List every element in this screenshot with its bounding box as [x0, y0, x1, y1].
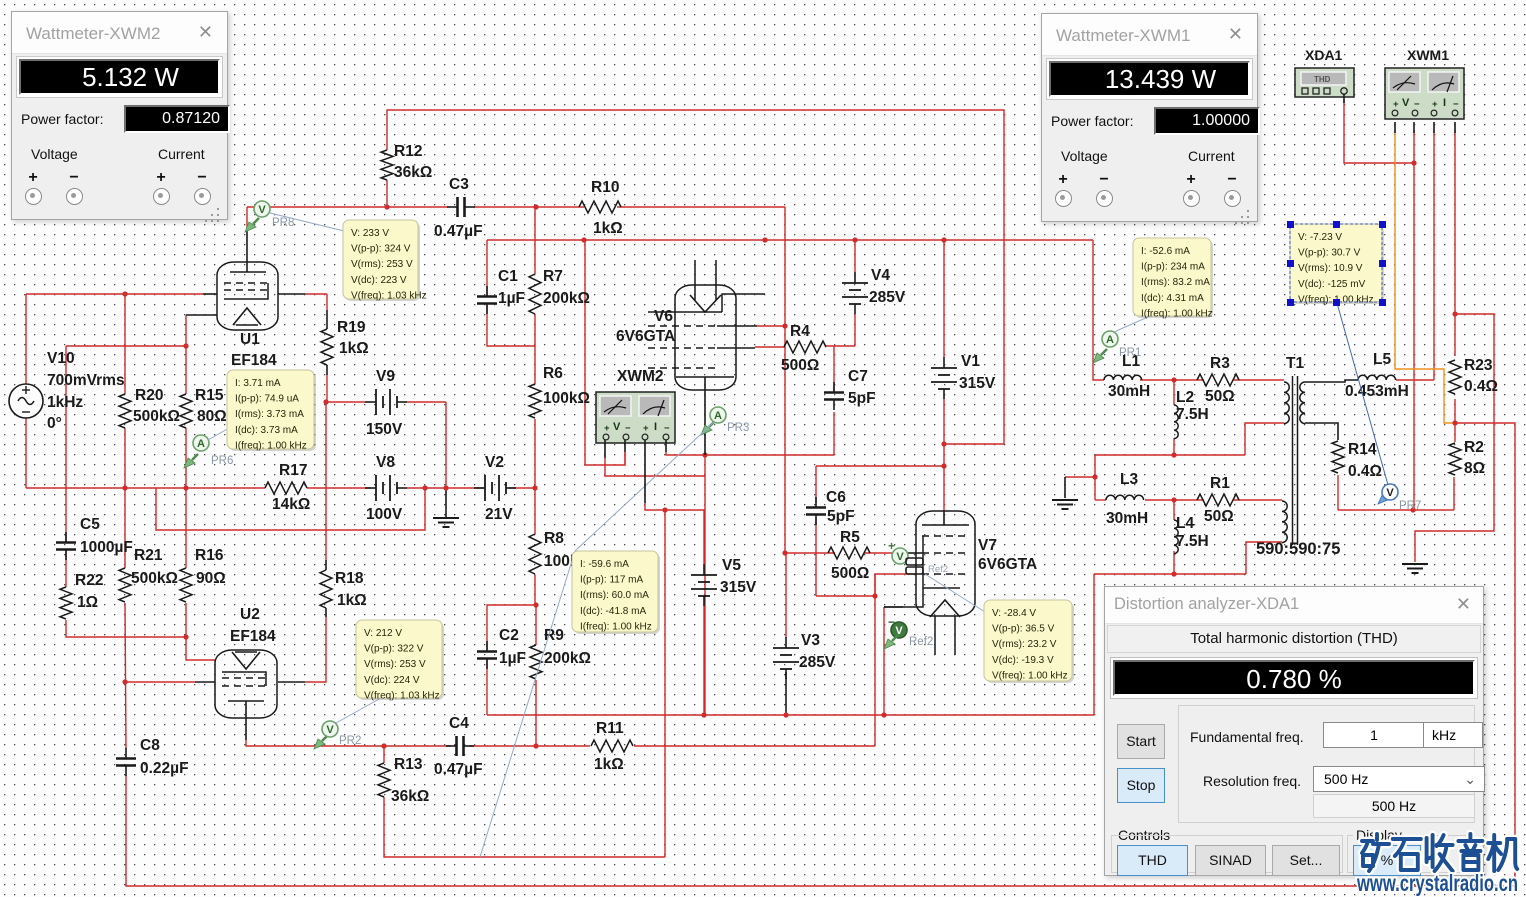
- junction: [881, 712, 886, 717]
- wire top rail y=110: [387, 110, 1004, 444]
- tube U2 EF184 envelope: [215, 650, 277, 718]
- wire x=326 down to R18: [325, 402, 327, 560]
- wire C1 bottom to junction: [487, 305, 535, 346]
- inductor L4 7.5H: [1174, 520, 1178, 554]
- wire R18 to U2 right pin: [305, 617, 326, 682]
- leader PR8: [270, 213, 344, 231]
- wire C3 to R10: [474, 206, 584, 208]
- dialog Wattmeter-XWM1: [1041, 13, 1258, 222]
- junction: [532, 485, 537, 490]
- wire V4 bottom stem: [854, 314, 856, 346]
- junction: [941, 463, 946, 468]
- capacitor C2 1uF: [477, 650, 497, 653]
- wire y=346 branch: [66, 345, 186, 347]
- capacitor C4 0.47uF: [455, 736, 458, 756]
- junction: [443, 485, 448, 490]
- wire T1 secondary bottom to R14: [1305, 423, 1338, 440]
- watermark glyph ji: [1488, 835, 1517, 871]
- wire V3 bottom black: [785, 672, 787, 715]
- wire R13 bottom rail y=857: [384, 797, 665, 857]
- wire R19 top stub black: [326, 310, 328, 329]
- wire C7 bottom stem: [833, 412, 835, 455]
- wire R2 bottom: [1453, 477, 1455, 510]
- probe readout box Ref2: [984, 600, 1074, 683]
- wire V4 top: [854, 240, 856, 272]
- resistor R12 36k: [381, 150, 393, 180]
- junction: [782, 550, 787, 555]
- wire y=466 V7 top link: [816, 465, 944, 467]
- wire XWM2 pin1 net: [605, 458, 705, 476]
- watermark glyph shou: [1427, 835, 1453, 871]
- junction: [762, 237, 767, 242]
- wire to R3: [1174, 379, 1204, 381]
- wire V9 right down: [445, 402, 447, 488]
- wire C5 top stem: [65, 346, 67, 542]
- wire R20 bottom: [124, 428, 126, 488]
- probe Ref2: [884, 615, 933, 649]
- wire bottom rail y=886: [126, 775, 1515, 886]
- wire L3 left: [1095, 499, 1106, 501]
- junction: [941, 441, 946, 446]
- probe readout box PR7 selected: [1290, 224, 1384, 305]
- battery V5 315V: [691, 574, 717, 576]
- wire R13 top: [383, 746, 385, 763]
- wire R6 bottom to V2 node: [534, 419, 536, 488]
- battery V3 285V: [773, 647, 799, 649]
- wire C6 bottom stem: [815, 518, 817, 596]
- wire L4 top stub: [1173, 500, 1175, 520]
- wire V6 cathode net x=705: [704, 455, 706, 715]
- junction: [533, 204, 538, 209]
- junction: [1452, 420, 1457, 425]
- wire R19 bottom to V9: [326, 375, 328, 402]
- tube U1 grids: [224, 282, 268, 284]
- transformer T1 secondary winding: [1300, 382, 1305, 424]
- wire R7 top: [534, 207, 536, 274]
- wire R15 top: [185, 346, 187, 394]
- wire R18 bottom stub: [325, 608, 327, 617]
- XWM2 pin stubs: [604, 440, 606, 458]
- wire C2 top branch: [487, 605, 536, 651]
- resistor R23 0.4: [1449, 360, 1461, 394]
- wire XWM1 pin3 down: [1433, 130, 1435, 380]
- tube V7 grids: [922, 535, 969, 537]
- ground near V2: [433, 517, 459, 519]
- wire C4 to R11: [469, 745, 590, 747]
- wire T1 primary bottom: [1245, 423, 1284, 455]
- tube U1 EF184 envelope: [217, 262, 278, 330]
- wire L4 bottom stub: [1173, 551, 1175, 574]
- junction: [1171, 571, 1176, 576]
- junction: [662, 507, 667, 512]
- wire C7 top stem: [833, 346, 835, 392]
- resistor R8 100k: [529, 534, 541, 574]
- junction: [1171, 377, 1176, 382]
- wire rail y=488 left: [26, 487, 265, 489]
- wire to U2 upper pin: [186, 637, 215, 660]
- resistor R6 100k: [529, 384, 541, 418]
- wire V10 top stem: [25, 294, 27, 384]
- wire L3 to R1: [1145, 499, 1204, 501]
- wire V5 top: [703, 510, 705, 564]
- wire rail y=746 left: [246, 740, 451, 746]
- wire L1 right: [1140, 379, 1174, 381]
- svg-text:www.crystalradio.cn: www.crystalradio.cn: [1356, 870, 1518, 896]
- resistor R14 0.4: [1332, 441, 1344, 473]
- probe PR2: [314, 721, 361, 749]
- wire R18 top stub: [325, 560, 327, 570]
- junction arrow: [1092, 474, 1097, 479]
- wire rail y=240: [487, 239, 1093, 241]
- probe PR5 plus: [888, 539, 908, 564]
- inductor L3 30mH: [1106, 495, 1144, 500]
- junction arrow: [122, 679, 127, 684]
- wire R8 top: [534, 488, 536, 534]
- tube V7 internal frame: [923, 536, 960, 588]
- wire x=665 up to XWM2 pin3 net: [664, 510, 666, 857]
- wire R21 bottom to C8: [125, 603, 126, 749]
- wire XWM2 pin2 to rail y=240: [585, 240, 625, 465]
- probe PR3: [701, 407, 749, 435]
- resistor R21 500k: [119, 568, 131, 602]
- wire R16 bottom: [185, 603, 187, 637]
- wire V9 right lead: [407, 401, 446, 403]
- wire U1 cathode pin black: [186, 314, 217, 316]
- probe PR7: [1378, 484, 1421, 512]
- capacitor C1 1uF: [477, 295, 497, 298]
- resistor R3 50: [1197, 374, 1239, 386]
- junction arrow: [1410, 507, 1415, 512]
- resistor R20 500k: [119, 394, 131, 428]
- probe PR6: [184, 435, 233, 468]
- capacitor C8 0.22uF: [116, 757, 136, 760]
- resistor R1 50: [1197, 494, 1239, 506]
- wire ground stem left: [1064, 477, 1066, 498]
- tube V6 6V6GTA envelope: [675, 285, 736, 390]
- wire R10 to x=785 drop: [617, 206, 785, 208]
- wire XWM1 pin2 down: [1413, 130, 1415, 510]
- XDA1 pin stub: [1343, 94, 1345, 103]
- tube V7 plate bar: [922, 524, 969, 526]
- wire XWM1 pin4 down to R23: [1454, 130, 1456, 356]
- resistor R5 500: [828, 547, 870, 559]
- junction: [702, 452, 707, 457]
- battery V4 285V: [842, 282, 868, 284]
- wire probe to V7 screen black: [908, 552, 922, 554]
- wire U2 right pin black: [278, 681, 305, 683]
- leader PR2: [336, 698, 381, 723]
- battery V1 315V: [931, 367, 957, 369]
- wire to R5 left: [785, 552, 835, 554]
- resistor R13 36k: [378, 763, 390, 797]
- wire ground tap y=477: [1065, 476, 1095, 478]
- junction: [381, 743, 386, 748]
- wire R12 bottom stub: [386, 180, 388, 207]
- tube V7 heater chevron: [930, 600, 960, 617]
- wire R2 node to right rail x=1515: [1455, 423, 1515, 886]
- leader PR1: [1114, 316, 1150, 332]
- tube U1 heater chevron: [233, 308, 261, 325]
- junction: [122, 291, 127, 296]
- wire rail y=715: [487, 714, 1094, 716]
- tube U2 heater chevron: [232, 652, 260, 669]
- wire C6 bottom tee: [816, 595, 875, 597]
- wire R9 top: [535, 605, 537, 645]
- resistor R19 1k: [321, 329, 333, 365]
- wire R5 right to probe: [864, 552, 893, 554]
- watermark glyph shi: [1393, 839, 1421, 870]
- capacitor C3 0.47uF: [456, 197, 459, 217]
- watermark glyph ji: [1488, 835, 1517, 871]
- junction: [941, 237, 946, 242]
- leader PR6: [208, 428, 229, 440]
- probe readout box PR1: [1133, 238, 1213, 319]
- junction: [323, 399, 328, 404]
- wire C5 to R22: [65, 550, 67, 587]
- wire R19 bottom stub black: [326, 365, 328, 375]
- wire V7 cathode bar black: [884, 606, 903, 608]
- junction: [701, 712, 706, 717]
- junction: [1452, 311, 1457, 316]
- wire U1 plate rail left: [247, 206, 448, 208]
- junction: [183, 634, 188, 639]
- wire R23 top loop to ground: [1415, 314, 1494, 562]
- wire V7 cathode down: [883, 607, 885, 715]
- instrument icon XWM2: [596, 392, 675, 443]
- probe PR1: [1093, 331, 1141, 363]
- junction: [783, 712, 788, 717]
- resistor R7 200k: [529, 274, 541, 314]
- source V10 700mVrms: [9, 384, 43, 418]
- wire XWM2 pin4 to R4/C7: [666, 452, 834, 455]
- wire C6 top stem: [815, 466, 817, 503]
- wire V5 bottom: [703, 606, 705, 715]
- resistor R2 8: [1449, 443, 1461, 475]
- junction: [1411, 160, 1416, 165]
- wire rail y=455: [1095, 454, 1245, 456]
- wire XWM2 pin3 net: [645, 503, 705, 510]
- wire V10 top rail y=294: [26, 293, 203, 295]
- wire into V7 plate: [943, 466, 945, 512]
- probe readout box PR8: [343, 220, 427, 301]
- junction: [581, 237, 586, 242]
- probe readout box PR2: [356, 620, 444, 701]
- wire U1 plate up: [246, 207, 248, 230]
- wire U2 grid pin black: [195, 681, 215, 683]
- probe readout box PR6: [227, 370, 316, 451]
- junction arrow: [872, 593, 877, 598]
- resistor R15 80: [180, 394, 192, 428]
- battery V9 150V: [375, 389, 377, 415]
- wire x=1094 up to T1 return: [1093, 574, 1095, 715]
- leader PR3: [575, 422, 714, 551]
- wire U1 cathode to junction: [185, 315, 187, 346]
- ground below R2 loop: [1402, 563, 1428, 565]
- wire R1 to T1 lower winding: [1233, 499, 1282, 501]
- dialog Wattmeter-XWM2: [11, 11, 228, 220]
- capacitor C5 1000uF: [56, 541, 76, 544]
- junction: [122, 485, 127, 490]
- battery V8 100V: [375, 475, 377, 501]
- XWM1 pin stubs: [1394, 122, 1396, 133]
- ground right of L3: [1052, 499, 1078, 501]
- probe readout box PR3: [572, 551, 660, 634]
- wire L5 right: [1396, 379, 1434, 381]
- leader Ref2: [925, 574, 985, 612]
- tube V6 heater pins: [694, 260, 696, 300]
- tube U1 plate bar: [230, 271, 266, 273]
- wire R16 top: [185, 488, 187, 568]
- junction: [384, 204, 389, 209]
- wire down to L1: [1093, 240, 1104, 380]
- dialog Distortion analyzer-XDA1: [1104, 586, 1484, 876]
- wire V8 right lead: [407, 487, 425, 489]
- watermark glyph yin: [1458, 834, 1482, 870]
- wire R8 bottom: [534, 575, 536, 605]
- inductor L5 0.453mH: [1358, 375, 1396, 380]
- wire rail y=574: [1094, 573, 1246, 575]
- battery V2 21V: [484, 475, 486, 501]
- resistor R10 1k: [579, 201, 621, 213]
- wire R11 to x=875: [634, 745, 875, 747]
- wire R14 bottom: [1337, 475, 1339, 510]
- tube V6 cathode: [676, 376, 734, 378]
- wire grid tee upper: [874, 574, 876, 596]
- wire T1 lower winding bottom: [1246, 542, 1282, 574]
- wire R4 right to V4: [826, 345, 855, 347]
- wire node to V2: [425, 487, 484, 489]
- resistor R11 1k: [591, 740, 633, 752]
- wire ground loop y=530: [156, 488, 425, 530]
- wire V10 bottom stem: [25, 418, 27, 488]
- watermark glyph yin: [1458, 834, 1482, 870]
- wire R15 bottom: [185, 428, 187, 488]
- tube V6 grids: [648, 325, 717, 327]
- tube V6 plate: [648, 294, 765, 312]
- wire x=1095 down to L3: [1094, 455, 1096, 500]
- tube U2 grids: [222, 677, 266, 679]
- wire C1 top: [486, 240, 488, 296]
- wire U1 right pin to R19: [305, 293, 327, 295]
- junction: [782, 323, 787, 328]
- wire orange XWM1 pin1: [1395, 130, 1455, 423]
- capacitor C6 5pF: [806, 506, 826, 509]
- wire U1 plate pin black: [246, 230, 248, 272]
- junction: [1171, 452, 1176, 457]
- wire V1 to x=1004: [944, 443, 1004, 445]
- wire V2 right: [509, 487, 535, 489]
- wire R23 bottom to R2 top: [1454, 399, 1456, 442]
- wire V9 left: [326, 401, 365, 403]
- wire C2 bottom: [486, 659, 488, 715]
- wire XWM2 pin2 stub red: [624, 452, 626, 465]
- transformer T1 primary winding: [1284, 382, 1289, 424]
- wire V1 bottom: [943, 399, 945, 466]
- wire rail y=510: [1338, 509, 1454, 511]
- wire R17 to V8: [307, 487, 371, 489]
- resistor R9 200k: [530, 645, 542, 679]
- wire T1 secondary to L5: [1305, 380, 1358, 382]
- junction: [1171, 497, 1176, 502]
- wire x=785 vertical U1 plate to R5: [784, 207, 786, 553]
- tube U2 plate bar: [228, 700, 264, 702]
- wire R21 top: [124, 488, 126, 568]
- watermark glyph shou: [1427, 835, 1453, 871]
- tube V6 heater chevron: [690, 295, 721, 312]
- wire U2 cathode black: [245, 718, 247, 740]
- wire x=875 up to V7 grid: [875, 574, 916, 746]
- inductor L1 30mH: [1104, 375, 1142, 380]
- wire ground stem: [445, 488, 447, 517]
- resistor R22 1: [60, 587, 72, 619]
- wire V6 screen to x=785: [757, 325, 785, 327]
- junction: [533, 602, 538, 607]
- instrument icon XDA1: [1295, 68, 1354, 97]
- inductor L2 7.5H: [1174, 405, 1178, 439]
- junction: [533, 743, 538, 748]
- watermark glyph kuang: [1362, 834, 1389, 871]
- capacitor C7 5pF: [824, 391, 844, 394]
- wire R9 bottom: [535, 680, 537, 746]
- junction arrow: [422, 485, 427, 490]
- probe PR8: [245, 201, 294, 232]
- leader PR7 selected: [1337, 303, 1388, 485]
- probe Ref2 marker on grid: [906, 558, 923, 565]
- resistor R17 14k: [265, 482, 307, 494]
- wire R7 bottom to R6 top: [534, 314, 536, 384]
- wire R20 top: [124, 294, 126, 394]
- resistor R4 500: [784, 341, 826, 353]
- wire XDA1 pin to pin2 net: [1344, 100, 1414, 163]
- tube V7 heater pins: [934, 616, 936, 655]
- watermark glyph shi: [1393, 839, 1421, 870]
- transformer T1 lower primary winding: [1282, 501, 1287, 543]
- wire R3 to T1 primary top: [1233, 379, 1284, 381]
- wire R19 top: [326, 294, 328, 310]
- wire U1 grid pin black: [203, 293, 217, 295]
- wire V3 top stem: [785, 553, 787, 638]
- resistor R16 90: [180, 568, 192, 602]
- wire V1 top: [943, 240, 945, 357]
- junction: [852, 237, 857, 242]
- wire V6 grid to R4: [755, 346, 785, 348]
- wire L2 top stub: [1173, 380, 1175, 405]
- transformer T1 core: [1292, 376, 1294, 545]
- wire U1 right pin black: [278, 293, 305, 295]
- wire R22 bottom y=637: [66, 620, 186, 637]
- tube U2 internal frame: [222, 672, 266, 686]
- instrument icon XWM1: [1385, 68, 1464, 119]
- tube V7 6V6GTA envelope: [916, 511, 975, 616]
- watermark glyph kuang: [1362, 834, 1389, 871]
- resistor R18 1k: [320, 570, 332, 608]
- selection border PR7 box: [1290, 224, 1382, 302]
- junction: [183, 485, 188, 490]
- wire L2 bottom stub: [1173, 438, 1175, 455]
- leader PR3 long: [480, 551, 575, 857]
- junction: [183, 343, 188, 348]
- tube U1 internal frame: [224, 283, 268, 299]
- wire to U2 grid pin: [126, 681, 195, 683]
